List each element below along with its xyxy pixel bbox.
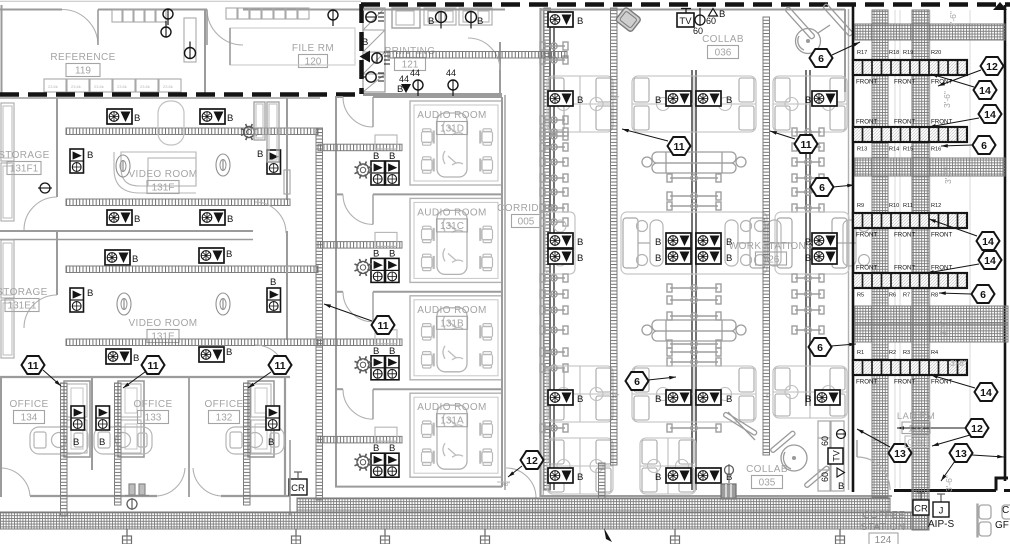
svg-text:23.6k: 23.6k — [163, 84, 173, 89]
monitor arm — [540, 143, 568, 151]
device circle — [448, 80, 458, 96]
leader arrow — [897, 426, 966, 430]
wall: top exterior — [0, 9, 62, 11]
svg-text:AUDIO ROOM: AUDIO ROOM — [417, 110, 487, 121]
svg-text:OFFICE: OFFICE — [9, 399, 48, 410]
rack id labels — [857, 203, 941, 209]
AV outlet box — [548, 249, 573, 264]
keynote hexagon 6 — [972, 285, 995, 303]
monitor arm — [667, 312, 721, 320]
monitor arm — [792, 128, 824, 136]
label B — [87, 150, 93, 161]
svg-text:11: 11 — [27, 360, 38, 372]
cable tray (horizontal) — [66, 339, 318, 346]
door arc reference — [62, 10, 98, 46]
label B — [373, 248, 379, 259]
chair — [480, 421, 492, 437]
speaker/outlet stack — [96, 406, 110, 430]
svg-text:AIP-S: AIP-S — [928, 519, 954, 530]
ceiling camera/speaker device — [355, 454, 372, 471]
svg-text:23.6k: 23.6k — [71, 84, 81, 89]
floor monument — [725, 464, 734, 483]
chair — [422, 254, 434, 270]
wall: storage/video divider 2 — [56, 231, 58, 295]
svg-text:B: B — [257, 149, 263, 160]
cable tray (vertical) — [61, 383, 68, 516]
speaker/outlet stack — [386, 161, 400, 185]
floor device symbol — [117, 293, 131, 315]
AV outlet box — [696, 390, 721, 405]
cable tray (crosshatch) — [855, 306, 1008, 324]
AV outlet box — [548, 91, 573, 106]
svg-text:6: 6 — [819, 182, 825, 194]
chair — [480, 449, 492, 465]
svg-text:6: 6 — [818, 53, 824, 65]
leader arrow — [929, 219, 977, 236]
rack id labels — [857, 293, 938, 299]
reference shelves — [112, 10, 122, 22]
wall: LAN bottom (black) — [894, 478, 1010, 491]
cable tray (vertical) — [599, 463, 606, 498]
svg-text:FRONT: FRONT — [894, 79, 916, 86]
label B — [726, 95, 732, 106]
label B — [655, 253, 661, 264]
reference base cabinets — [44, 79, 66, 92]
monitor arm — [667, 174, 721, 182]
monitor arm — [540, 116, 568, 124]
AV outlet box — [107, 210, 132, 225]
AV outlet box — [815, 390, 840, 405]
triangle device — [706, 9, 725, 27]
svg-text:FRONT: FRONT — [931, 379, 953, 386]
label B — [655, 95, 661, 106]
wall: 131F/131E divider — [0, 230, 253, 232]
speaker/outlet stack — [386, 453, 400, 477]
wall: corridor right — [539, 8, 541, 497]
svg-text:STORAGE: STORAGE — [0, 150, 50, 161]
svg-text:B: B — [477, 16, 483, 27]
svg-text:B: B — [99, 437, 105, 448]
leader arrow — [831, 343, 856, 347]
svg-text:134: 134 — [21, 413, 38, 424]
workstation cluster mid — [621, 212, 767, 274]
svg-text:B: B — [655, 253, 661, 264]
monitor arm — [540, 204, 568, 212]
AV outlet box — [199, 248, 224, 263]
room label VIDEO ROOM 131F — [128, 169, 197, 194]
cable tray (horizontal) — [318, 242, 402, 249]
svg-text:23.6k: 23.6k — [140, 84, 150, 89]
storage shelving 131E1 — [1, 240, 14, 298]
svg-text:AUDIO ROOM: AUDIO ROOM — [417, 207, 487, 218]
svg-text:B: B — [268, 437, 274, 448]
AV outlet box — [666, 91, 691, 106]
cable tray (horizontal) — [318, 339, 402, 346]
ceiling fan — [785, 3, 853, 53]
svg-text:44: 44 — [410, 68, 420, 78]
keynote hexagon 13 — [950, 444, 973, 462]
floor device symbol — [116, 155, 130, 177]
workstation cluster — [632, 366, 756, 422]
chair — [422, 449, 434, 465]
J box — [933, 494, 949, 517]
keynote circle on wall — [38, 183, 52, 193]
rack id labels — [857, 50, 941, 56]
monitor arm — [540, 326, 568, 334]
monitor arm — [792, 143, 824, 151]
label B — [132, 254, 138, 265]
keynote hexagon 14 — [974, 81, 997, 99]
dim 48 — [497, 482, 510, 488]
svg-text:B: B — [389, 151, 395, 162]
svg-text:B: B — [577, 237, 583, 248]
wall: audio room top — [335, 96, 343, 98]
workstation cluster mid — [755, 212, 870, 274]
equipment rack row — [853, 127, 967, 142]
wall: left exterior — [1, 5, 3, 94]
svg-text:11: 11 — [673, 141, 684, 153]
AV outlet box — [200, 210, 225, 225]
door arc 131E exit — [255, 345, 286, 375]
audio table — [437, 210, 467, 274]
svg-text:3'-6": 3'-6" — [944, 475, 954, 492]
label B — [428, 16, 434, 27]
room label OFFICE 134 — [9, 399, 48, 424]
svg-text:B: B — [805, 394, 811, 405]
svg-text:COLLAB: COLLAB — [702, 34, 744, 45]
cable tray (horizontal) — [66, 266, 318, 273]
monitor arm — [667, 358, 721, 366]
workstation cluster — [640, 438, 696, 494]
label B — [805, 394, 811, 405]
svg-text:FRONT: FRONT — [856, 119, 878, 126]
storage shelving 131F1 — [1, 103, 14, 161]
svg-text:B: B — [389, 443, 395, 454]
AV outlet box — [812, 91, 837, 106]
equipment floor box — [721, 484, 736, 499]
svg-text:B: B — [726, 394, 732, 405]
room label VIDEO ROOM 131E — [128, 318, 197, 343]
svg-text:60: 60 — [706, 16, 716, 26]
workstation cluster — [773, 366, 847, 418]
room label REFERENCE 119 — [50, 52, 115, 77]
svg-text:13: 13 — [894, 448, 906, 460]
monitor arm — [540, 364, 568, 372]
svg-text:R8: R8 — [931, 293, 938, 299]
label B — [805, 237, 811, 248]
keynote hexagon 6 — [626, 372, 649, 390]
audio table — [437, 308, 467, 372]
room label AUDIO ROOM 131B — [417, 305, 487, 330]
label B — [655, 394, 661, 405]
rack id labels — [857, 147, 941, 153]
svg-text:B: B — [655, 237, 661, 248]
label B — [726, 237, 732, 248]
svg-text:R1: R1 — [857, 350, 864, 356]
audio inner room — [410, 296, 502, 380]
svg-text:STATION: STATION — [861, 522, 906, 533]
svg-text:119: 119 — [75, 66, 91, 77]
rack room interior gridlines — [895, 10, 970, 488]
chairs bottom right — [978, 504, 992, 521]
svg-text:3'-6": 3'-6" — [943, 167, 953, 184]
dimension note — [612, 96, 771, 400]
wall: audio left — [335, 97, 337, 194]
svg-text:B: B — [134, 214, 140, 225]
leader arrow — [927, 264, 979, 274]
cable tray (vertical) — [544, 8, 551, 490]
AV outlet box — [666, 468, 691, 483]
monitor arm — [792, 306, 824, 314]
label B — [655, 237, 661, 248]
svg-text:B: B — [226, 249, 232, 260]
wall: audio room top — [335, 388, 343, 390]
label B — [577, 394, 583, 405]
svg-text:B: B — [389, 346, 395, 357]
AV outlet box — [666, 390, 691, 405]
keynote hexagon 11 — [668, 137, 691, 155]
wall: corridor left — [504, 95, 506, 490]
svg-text:B: B — [838, 481, 844, 492]
svg-text:131A: 131A — [440, 416, 464, 427]
door arcs offices — [2, 468, 221, 496]
leader arrow — [932, 435, 970, 446]
label B — [73, 437, 79, 448]
svg-text:131B: 131B — [440, 318, 464, 329]
svg-text:B: B — [577, 394, 583, 405]
label B — [362, 37, 368, 48]
room label WORKSTATIONS 026 — [729, 241, 813, 266]
door arc audio — [343, 292, 373, 322]
cable tray (crosshatch) — [297, 498, 890, 512]
keynote hexagon 6 — [811, 178, 834, 196]
wall: video room right — [286, 98, 288, 200]
svg-text:R11: R11 — [903, 203, 913, 209]
L-desk video room 131F — [114, 152, 196, 193]
door frame detail — [125, 484, 149, 496]
leader arrow — [833, 184, 854, 188]
ceiling camera/speaker device — [355, 259, 372, 276]
label AIP-S — [928, 519, 954, 530]
svg-text:005: 005 — [518, 217, 535, 228]
wall: workstation bottom — [540, 495, 892, 497]
cable tray (crosshatch) — [872, 10, 888, 497]
cable tray (horizontal) — [66, 128, 318, 135]
svg-text:60: 60 — [693, 26, 703, 36]
svg-text:14: 14 — [984, 255, 996, 267]
vestibule table — [375, 427, 397, 441]
svg-text:B: B — [87, 150, 93, 161]
heavy dashed demising wall — [0, 92, 361, 97]
svg-text:B: B — [87, 288, 93, 299]
cable tray (horizontal) — [66, 199, 290, 206]
svg-text:B: B — [805, 95, 811, 106]
svg-text:OFFICE: OFFICE — [133, 399, 172, 410]
AV outlet box — [696, 233, 721, 248]
speaker/outlet stack — [371, 258, 385, 282]
device circle — [372, 53, 382, 63]
keynote hexagon 14 — [979, 251, 1002, 269]
svg-text:14: 14 — [980, 387, 992, 399]
svg-text:3'-8": 3'-8" — [950, 358, 967, 368]
wall: reference/file divider — [204, 9, 206, 94]
room label CORRIDOR 005 — [497, 203, 555, 228]
vestibule table — [375, 330, 397, 344]
label B — [257, 149, 263, 160]
monitor arm — [540, 348, 568, 356]
wall: top thin edge — [0, 0, 361, 2]
workstation cluster — [547, 366, 613, 422]
leader arrow — [929, 118, 979, 128]
wall: audio left — [335, 292, 337, 389]
monitor arm — [540, 174, 568, 182]
keynote hexagon 12 — [966, 419, 989, 437]
svg-text:R10: R10 — [889, 203, 899, 209]
svg-text:131D: 131D — [440, 124, 464, 135]
monitor arm — [667, 424, 721, 432]
AV outlet box — [666, 249, 691, 264]
ceiling camera/speaker device — [355, 162, 372, 179]
audio table — [437, 405, 467, 469]
leader arrow — [324, 304, 372, 321]
svg-text:6: 6 — [981, 140, 987, 152]
cable tray (vertical) — [611, 8, 618, 465]
wall: top of video room — [0, 97, 320, 99]
label B — [389, 346, 395, 357]
device circle — [466, 12, 477, 29]
lounge chair dark — [615, 7, 641, 33]
svg-text:B: B — [132, 254, 138, 265]
audio table — [437, 113, 467, 177]
chair — [422, 157, 434, 173]
cable tray (crosshatch) — [0, 512, 928, 529]
monitor arm — [792, 188, 824, 196]
round table collab 035 — [770, 430, 830, 488]
svg-text:B: B — [655, 472, 661, 483]
svg-text:14: 14 — [982, 236, 994, 248]
keynote hexagon 6 — [810, 49, 833, 67]
speaker/outlet stack — [267, 150, 281, 174]
svg-text:FRONT: FRONT — [856, 232, 878, 239]
room label STORAGE 131E1 — [0, 287, 48, 312]
monitor arm — [792, 274, 824, 282]
label B — [577, 95, 583, 106]
AV outlet box — [107, 109, 132, 124]
leader arrow — [931, 375, 975, 388]
workstation cluster — [773, 76, 847, 132]
svg-text:C10: C10 — [907, 438, 924, 449]
svg-text:3'-6": 3'-6" — [938, 319, 948, 336]
device circle — [436, 12, 447, 29]
svg-text:B: B — [373, 443, 379, 454]
svg-text:60: 60 — [820, 436, 830, 446]
heavy dashed demising wall — [359, 4, 364, 94]
leader arrow — [931, 74, 974, 87]
equipment rack row — [853, 273, 967, 288]
speaker/outlet stack — [266, 406, 280, 430]
wall: workstation/rack boundary — [848, 9, 850, 490]
keynote hexagon 11 — [269, 356, 292, 374]
svg-text:R16: R16 — [931, 147, 941, 153]
label B — [373, 151, 379, 162]
partition spine — [692, 70, 696, 490]
floor monument circle — [127, 498, 137, 510]
svg-text:COLLAB: COLLAB — [746, 464, 788, 475]
chair — [422, 421, 434, 437]
FRONT labels — [856, 379, 953, 386]
device circle — [413, 80, 423, 96]
cable tray (vertical) — [763, 17, 770, 455]
room label AUDIO ROOM 131C — [417, 207, 487, 232]
keynote hexagon 12 — [521, 451, 544, 469]
label B — [805, 253, 811, 264]
wall: printing bottom — [363, 93, 502, 96]
bench desk — [642, 152, 746, 173]
svg-text:11: 11 — [377, 320, 388, 332]
file room shelves — [226, 8, 237, 19]
speaker/outlet stack — [371, 161, 385, 185]
monitor arm — [792, 326, 824, 334]
office closets — [64, 381, 90, 457]
label B — [99, 437, 105, 448]
svg-text:B: B — [655, 95, 661, 106]
wall: nook right of 132 — [289, 440, 291, 515]
label B — [268, 437, 274, 448]
svg-text:B: B — [577, 472, 583, 483]
wall: rack room left (black) — [852, 5, 855, 492]
svg-text:B: B — [270, 277, 276, 288]
ceiling camera/speaker device — [355, 356, 372, 373]
leader arrow — [648, 376, 676, 380]
AV outlet box — [548, 390, 573, 405]
svg-text:B: B — [226, 347, 232, 358]
svg-text:FRONT: FRONT — [931, 232, 953, 239]
svg-text:38": 38" — [612, 96, 620, 102]
wall: audio rooms right — [501, 97, 503, 487]
vestibule table — [375, 135, 397, 149]
label B — [726, 472, 732, 483]
cable tray (vertical) — [115, 383, 122, 505]
top-right wall marks — [986, 2, 1007, 10]
svg-text:B: B — [227, 113, 233, 124]
svg-text:R17: R17 — [857, 50, 867, 56]
keynote hexagon 11 — [372, 316, 395, 334]
svg-text:44: 44 — [399, 74, 409, 84]
svg-text:B: B — [726, 95, 732, 106]
monitor arm — [667, 192, 721, 200]
label B — [226, 347, 232, 358]
equipment rack 131F — [254, 102, 265, 140]
cable tray (crosshatch) — [912, 10, 929, 530]
AV outlet box — [548, 468, 573, 483]
keynote hexagon 14 — [977, 232, 1000, 250]
svg-text:B: B — [428, 16, 434, 27]
wall speaker arrow — [360, 51, 371, 63]
svg-text:132: 132 — [216, 413, 233, 424]
monitor arm — [540, 132, 568, 140]
door arc audio — [343, 194, 373, 224]
leader arrow — [857, 429, 890, 447]
label B — [805, 95, 811, 106]
svg-text:R12: R12 — [931, 203, 941, 209]
label B — [373, 346, 379, 357]
keynote hexagon 11 — [795, 135, 818, 153]
rack id labels — [857, 350, 938, 356]
svg-text:44: 44 — [446, 68, 456, 78]
wall: office 132 right — [284, 377, 286, 497]
room label COFFEE STATION 124 — [861, 510, 906, 544]
svg-text:C: C — [1002, 505, 1009, 516]
